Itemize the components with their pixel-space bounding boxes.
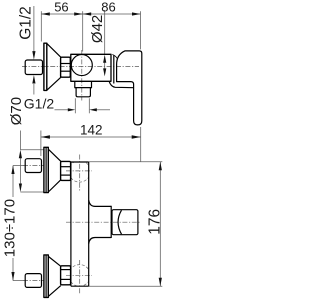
- svg-text:Ø42: Ø42: [89, 15, 106, 43]
- svg-text:56: 56: [54, 0, 68, 15]
- svg-text:142: 142: [80, 123, 103, 138]
- svg-text:G1/2: G1/2: [18, 6, 35, 40]
- svg-text:G1/2: G1/2: [24, 96, 55, 112]
- svg-text:Ø70: Ø70: [8, 97, 25, 125]
- svg-text:130÷170: 130÷170: [1, 199, 18, 257]
- svg-text:176: 176: [147, 209, 164, 235]
- svg-text:86: 86: [101, 0, 115, 15]
